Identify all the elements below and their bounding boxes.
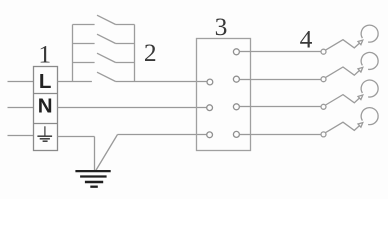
arrowhead row3 bbox=[358, 95, 363, 100]
switch group 2 right bus bbox=[134, 25, 136, 82]
svg-text:4: 4 bbox=[300, 25, 313, 54]
arrowhead row4 bbox=[358, 123, 363, 128]
lamp switch row3 contact bbox=[321, 104, 326, 109]
wire L left stub bbox=[8, 81, 34, 83]
stub right row2 bbox=[239, 79, 250, 81]
pendant lamp row4 bbox=[361, 108, 378, 125]
distribution box 3 bbox=[197, 39, 251, 151]
terminal 3 right row1 bbox=[233, 49, 239, 55]
terminal 3 left PE bbox=[207, 132, 213, 138]
lamp switch row2 blade bbox=[326, 67, 360, 77]
switch group 2 left bus bbox=[72, 25, 74, 82]
switch S3 right rung bbox=[116, 62, 135, 64]
stub right row4 bbox=[239, 134, 250, 136]
switch S4 blade bbox=[97, 72, 116, 81]
wire PE from block 1 bbox=[58, 136, 95, 138]
wire PE branch to box 3 bbox=[118, 134, 207, 136]
svg-text:1: 1 bbox=[38, 39, 51, 68]
lamp switch row1 blade bbox=[326, 40, 360, 50]
branch circuit row3 bbox=[251, 80, 379, 109]
switch S3 left rung bbox=[73, 62, 95, 64]
wire N left stub bbox=[8, 107, 34, 109]
switch S3 blade bbox=[97, 53, 116, 62]
stub right row1 bbox=[239, 51, 250, 53]
pendant lamp row2 bbox=[361, 52, 378, 69]
earth symbol in block 1 bbox=[37, 126, 52, 141]
switch S1 blade bbox=[97, 15, 116, 24]
lamp switch row4 blade bbox=[326, 122, 360, 132]
branch circuit row1 bbox=[251, 25, 379, 54]
lamp switch row2 contact bbox=[321, 77, 326, 82]
svg-text:N: N bbox=[38, 95, 53, 118]
terminal 3 left N bbox=[207, 105, 213, 111]
wire row4 bbox=[251, 134, 322, 136]
stub right row3 bbox=[239, 106, 250, 108]
wire L from switch 2 to box 3 bbox=[116, 81, 207, 83]
wire row1 bbox=[251, 51, 322, 53]
wire PE left stub bbox=[8, 135, 34, 137]
switch S2 left rung bbox=[73, 43, 95, 45]
arrowhead row2 bbox=[358, 67, 363, 72]
main earth symbol bbox=[75, 171, 110, 187]
switch S1 left rung bbox=[73, 24, 95, 26]
lamp switch row1 contact bbox=[321, 49, 326, 54]
arrowhead row1 bbox=[358, 40, 363, 45]
wire row2 bbox=[251, 79, 322, 81]
svg-text:L: L bbox=[39, 70, 52, 93]
divider L/N bbox=[34, 93, 58, 95]
pendant lamp row3 bbox=[361, 80, 378, 97]
svg-text:3: 3 bbox=[215, 12, 228, 41]
wire earth diagonal bbox=[96, 135, 118, 171]
divider N/PE bbox=[34, 123, 58, 125]
pendant lamp row1 bbox=[361, 25, 378, 42]
terminal 3 left L bbox=[207, 79, 213, 85]
terminal block 1 bbox=[34, 67, 58, 151]
branch circuit row2 bbox=[251, 52, 379, 81]
branch circuit row4 bbox=[251, 108, 379, 137]
svg-text:2: 2 bbox=[144, 38, 157, 67]
switch S2 blade bbox=[97, 34, 116, 43]
wire L from block 1 to switch 2 bbox=[58, 81, 92, 83]
terminal 3 right row4 bbox=[233, 131, 239, 137]
terminal 3 right row3 bbox=[233, 104, 239, 110]
wire N from block 1 to box 3 bbox=[58, 107, 207, 109]
switch S1 right rung bbox=[116, 24, 135, 26]
wire row3 bbox=[251, 106, 322, 108]
wire PE drop to earth bbox=[94, 137, 96, 171]
terminal 3 right row2 bbox=[233, 76, 239, 82]
switch S2 right rung bbox=[116, 43, 135, 45]
lamp switch row3 blade bbox=[326, 95, 360, 105]
lamp switch row4 contact bbox=[321, 132, 326, 137]
